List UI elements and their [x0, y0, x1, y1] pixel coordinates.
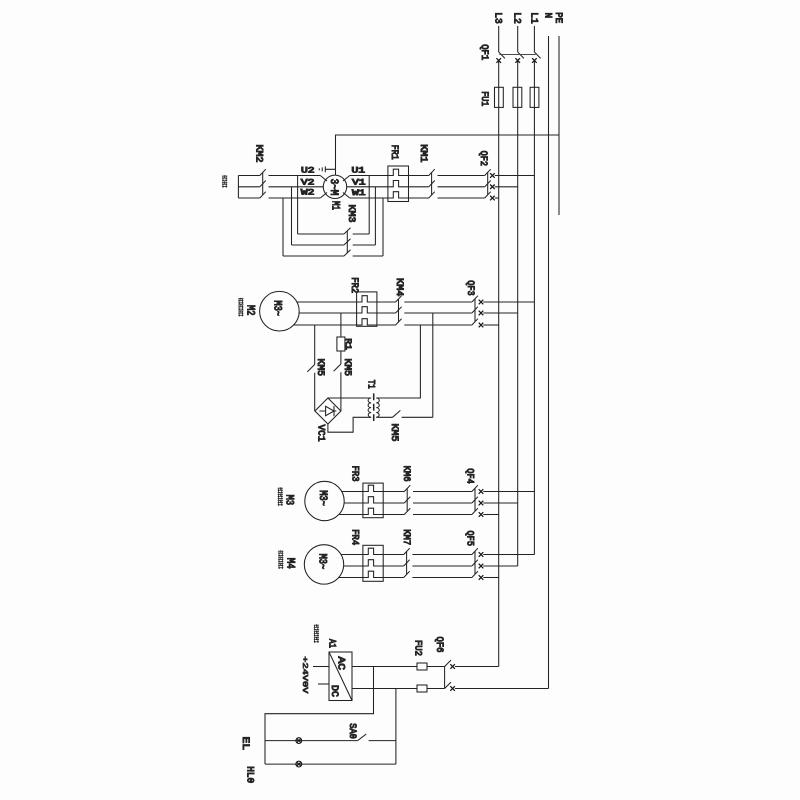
- fuse FU2: [412, 640, 445, 692]
- label power supply machine label: [314, 624, 319, 643]
- contactor KM5 contact c: [388, 410, 433, 441]
- transformer T1: [365, 380, 380, 422]
- svg-text:N: N: [541, 13, 552, 19]
- wire +24V stub: [313, 666, 329, 668]
- wire HL0 lamp line: [265, 763, 396, 765]
- svg-text:M3~: M3~: [271, 300, 283, 316]
- contactor KM7: [383, 529, 472, 577]
- contactor KM4: [377, 278, 472, 325]
- svg-text:KM4: KM4: [393, 278, 404, 296]
- svg-text:M3~: M3~: [315, 554, 327, 570]
- wire 0V stub: [318, 683, 329, 685]
- svg-text:FR3: FR3: [348, 466, 359, 482]
- svg-text:M3: M3: [283, 495, 295, 506]
- wire M3 phase lines: [339, 492, 363, 515]
- svg-text:KM5: KM5: [314, 359, 325, 377]
- svg-text:QF4: QF4: [464, 468, 475, 484]
- wire brake dropper from W phase: [314, 325, 316, 365]
- svg-text:U2: U2: [301, 166, 315, 176]
- resistor R1: [337, 337, 353, 351]
- ground: [319, 166, 335, 172]
- svg-text:QF2: QF2: [477, 151, 488, 167]
- node L2: [511, 12, 522, 24]
- motor M1: [323, 175, 346, 210]
- wire L2 bus vertical: [517, 26, 519, 566]
- wire VC1 bottom to T1 primary: [328, 417, 371, 432]
- svg-text:V1: V1: [352, 178, 366, 188]
- svg-text:KM5: KM5: [388, 424, 399, 442]
- motor M3: [305, 481, 344, 520]
- breaker QF6: [433, 637, 548, 691]
- wire U1 line: [350, 175, 388, 177]
- node N: [541, 13, 552, 19]
- motor M4: [304, 545, 343, 584]
- wire L1 bus vertical: [533, 26, 535, 555]
- wire KM3 right dropper 1: [368, 176, 370, 235]
- wire PE bus vertical: [558, 36, 560, 215]
- wire V1 line: [347, 186, 388, 188]
- svg-text:W2: W2: [301, 188, 315, 198]
- svg-text:L2: L2: [511, 12, 522, 24]
- svg-text:V2: V2: [301, 177, 315, 187]
- svg-text:FR4: FR4: [348, 529, 359, 545]
- wire N bus vertical: [548, 36, 550, 689]
- fuse FU1: [478, 87, 539, 107]
- wire KM3 left dropper 2: [291, 187, 293, 245]
- wire T1 secondary bottom: [376, 416, 392, 418]
- contactor KM2: [238, 145, 323, 199]
- wire M2 phase lines: [294, 302, 357, 325]
- wire W1 line: [350, 197, 388, 199]
- contactor KM3: [283, 205, 383, 257]
- lamp EL: [239, 737, 302, 751]
- svg-text:L3: L3: [492, 12, 503, 24]
- svg-text:EL: EL: [239, 737, 250, 751]
- svg-text:T1: T1: [365, 380, 376, 389]
- svg-text:W1: W1: [352, 188, 366, 198]
- label M2 machine name: [238, 298, 255, 317]
- thermal relay FR1: [388, 145, 409, 202]
- svg-text:M3~: M3~: [316, 490, 328, 506]
- svg-text:SA0: SA0: [346, 723, 357, 739]
- svg-text:FR2: FR2: [348, 277, 359, 293]
- svg-text:3~M: 3~M: [327, 179, 339, 196]
- svg-text:A1: A1: [326, 639, 337, 648]
- contactor KM6: [383, 466, 472, 515]
- svg-text:QF6: QF6: [433, 637, 444, 653]
- svg-text:PE: PE: [552, 12, 563, 23]
- svg-text:M4: M4: [284, 558, 296, 569]
- svg-text:FU1: FU1: [478, 91, 489, 106]
- svg-text:KM1: KM1: [417, 144, 428, 162]
- motor M1 terminals U1 V1 W1: [343, 166, 366, 198]
- wire L3 bus vertical: [498, 26, 500, 667]
- node PE: [552, 12, 563, 23]
- breaker QF5: [464, 531, 535, 580]
- wire A1 to FU2 line 1: [352, 666, 417, 668]
- wire KM3 right dropper 2: [374, 187, 376, 245]
- svg-text:R1: R1: [343, 338, 353, 350]
- svg-text:QF1: QF1: [478, 44, 489, 60]
- wire PE branch to motor ground: [336, 135, 560, 175]
- breaker QF1: [478, 44, 541, 63]
- contactor KM5 contact a: [307, 359, 325, 412]
- svg-text:M1: M1: [329, 201, 341, 210]
- label M3 machine name: [278, 487, 295, 506]
- contactor KM5 contact b: [334, 359, 352, 412]
- svg-text:FU2: FU2: [412, 640, 423, 656]
- wire brake dropper from V phase: [340, 313, 342, 337]
- node L3: [492, 12, 503, 24]
- contactor KM1: [409, 144, 485, 198]
- svg-text:FR1: FR1: [388, 145, 399, 160]
- motor M2: [260, 291, 300, 331]
- thermal relay FR4: [348, 529, 383, 581]
- svg-text:KM2: KM2: [253, 145, 264, 163]
- wire R1 to KM5: [340, 351, 342, 364]
- wire A1 to FU2 line 2: [352, 688, 417, 690]
- power supply A1: [300, 639, 352, 701]
- wire KM3 left dropper 3: [282, 198, 284, 256]
- wire EL lamp line: [265, 740, 358, 742]
- wire KM3 left dropper 1: [297, 176, 299, 235]
- motor M1 terminals U2 V2 W2: [301, 166, 327, 198]
- label M4 machine name: [278, 550, 295, 569]
- breaker QF2: [477, 151, 534, 201]
- wire 0V rail down: [395, 689, 397, 765]
- svg-text:AC: AC: [334, 657, 345, 671]
- svg-text:L1: L1: [527, 12, 538, 24]
- svg-text:QF5: QF5: [464, 531, 475, 547]
- svg-text:U1: U1: [352, 166, 366, 176]
- wire KM5c to V phase tap: [432, 313, 434, 417]
- breaker QF4: [464, 468, 535, 517]
- label 主轴 (M1 machine label): [222, 175, 227, 188]
- lamp HL0: [244, 761, 302, 783]
- switch SA0: [346, 723, 396, 740]
- svg-text:KM5: KM5: [341, 359, 352, 377]
- rectifier VC1: [315, 398, 341, 442]
- svg-text:QF3: QF3: [464, 280, 475, 296]
- breaker QF3: [464, 280, 534, 327]
- svg-text:KM3: KM3: [345, 205, 356, 223]
- svg-text:DC: DC: [328, 685, 339, 697]
- svg-text:M2: M2: [243, 305, 255, 316]
- thermal relay FR2: [348, 277, 377, 326]
- svg-text:KM6: KM6: [400, 466, 411, 482]
- svg-text:+24V0V: +24V0V: [300, 656, 308, 694]
- wire T1 secondary top tap: [376, 325, 420, 398]
- node L1: [527, 12, 538, 24]
- svg-text:VC1: VC1: [315, 425, 326, 442]
- svg-text:HL0: HL0: [244, 766, 255, 783]
- wire 24V rail down: [265, 667, 374, 765]
- svg-text:KM7: KM7: [400, 529, 411, 545]
- wire VC1 top to T1 primary: [328, 397, 371, 399]
- thermal relay FR3: [348, 466, 383, 518]
- wire KM3 right dropper 3: [382, 198, 384, 256]
- wire M4 phase lines: [339, 555, 363, 578]
